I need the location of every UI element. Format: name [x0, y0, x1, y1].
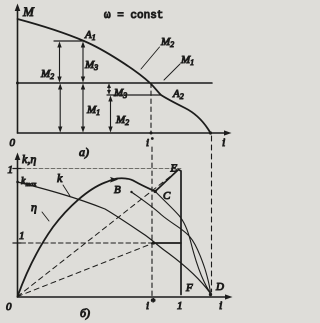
dashed vertical at D x [211, 136, 213, 292]
arrow M3 upper [81, 42, 85, 83]
svg-text:F: F [185, 282, 193, 294]
svg-text:0: 0 [6, 301, 12, 313]
top chart y-axis [17, 8, 19, 133]
dot C [154, 190, 157, 193]
svg-text:η: η [31, 200, 37, 214]
direction arrow on k curve [110, 177, 118, 183]
solid mid-level segment [152, 242, 181, 244]
svg-text:k: k [57, 171, 63, 185]
dashed diagonal O to mid dot [18, 243, 154, 297]
dot near B [130, 191, 132, 193]
M1 level horizontal line [18, 82, 213, 84]
dot curve end [209, 131, 212, 134]
svg-text:C: C [163, 190, 171, 202]
arrow M1 [81, 84, 85, 133]
svg-text:M: M [22, 4, 35, 19]
svg-text:а): а) [79, 145, 89, 159]
bottom chart y-axis [17, 158, 19, 297]
svg-text:i: i [219, 298, 222, 312]
arrow lower-left unlabeled [58, 84, 62, 133]
A1 level short line [54, 40, 85, 42]
dot main line at axis [16, 82, 19, 85]
A2 level short line [107, 94, 161, 96]
k curve (rising to peak B then to C) [18, 178, 156, 296]
svg-text:б): б) [80, 306, 90, 320]
svg-text:ω = const: ω = const [104, 10, 163, 22]
svg-text:*: * [151, 297, 156, 307]
top chart x-axis [18, 132, 228, 134]
dot i* on axis [150, 132, 153, 135]
pointer line M1 label [164, 64, 180, 80]
svg-text:i: i [222, 135, 225, 149]
arrow M2 upper [57, 42, 61, 83]
curve kmax (declining from axis to D) [18, 182, 211, 294]
dot D [209, 293, 212, 296]
dashed mid-level horizontal [21, 242, 152, 244]
svg-text:E: E [170, 163, 178, 175]
dashed vertical i* (bottom) [151, 147, 153, 297]
tick 1 top [13, 168, 21, 170]
svg-text:0: 0 [10, 137, 16, 149]
svg-text:i: i [146, 137, 149, 149]
M(i) curve [18, 19, 211, 133]
svg-text:1: 1 [19, 230, 25, 242]
pointer k label [63, 185, 70, 196]
dashed vertical at i* (top) [150, 83, 152, 133]
tick 1 lower level [13, 242, 21, 244]
svg-text:k,η: k,η [22, 152, 36, 166]
svg-text:1: 1 [177, 300, 183, 312]
line C to E [155, 170, 181, 295]
thin curve B to D [132, 192, 211, 294]
svg-text:i: i [146, 300, 149, 312]
pointer line M2 top label [141, 47, 160, 69]
dashed diagonal O to E [18, 170, 179, 297]
bottom chart x-axis [18, 296, 229, 298]
arrow M3 small [107, 84, 111, 95]
dot kmax start [16, 181, 19, 184]
svg-text:B: B [114, 184, 121, 196]
svg-text:D: D [215, 281, 224, 293]
dashed 1-level horizontal [21, 168, 182, 170]
pointer eta label [42, 212, 49, 221]
arrow M2 lower [108, 96, 112, 133]
junction dot on mid-level [152, 241, 155, 244]
svg-text:1: 1 [8, 164, 14, 176]
thin curve C to D [155, 191, 210, 293]
